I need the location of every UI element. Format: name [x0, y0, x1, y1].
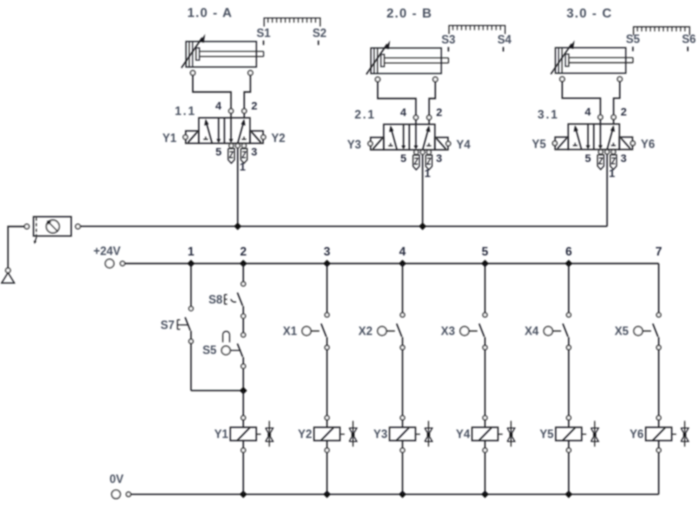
svg-text:Y1: Y1: [214, 429, 229, 441]
wire cylinder left port to valve port 4: [193, 75, 231, 109]
svg-text:S5: S5: [626, 34, 641, 46]
junction 0V rail column 4: [399, 491, 407, 499]
contact X4 (NO): [525, 313, 571, 350]
switch S7 (detent, NO): [160, 307, 193, 344]
+24V supply terminal: [93, 246, 124, 268]
solenoid Y1 (left pilot): [183, 131, 199, 143]
wire joining column 1 to column 2: [191, 390, 243, 392]
silencer at port 5: [413, 155, 419, 170]
junction under valve 1.1: [234, 223, 242, 231]
svg-text:X3: X3: [441, 326, 455, 338]
svg-text:1: 1: [609, 168, 615, 180]
svg-text:3: 3: [324, 245, 331, 259]
suppressor of Y1: [256, 421, 273, 447]
svg-text:5: 5: [482, 245, 489, 259]
svg-text:4: 4: [399, 245, 406, 259]
valve port 2 connection: [427, 115, 431, 124]
svg-text:0V: 0V: [109, 474, 123, 486]
svg-text:X1: X1: [283, 326, 298, 338]
wire S8 to S5: [242, 318, 244, 333]
ruler scale above cylinder 2: [449, 26, 506, 35]
contact X3 (NO): [441, 313, 487, 350]
wire X1 down to relay: [326, 350, 328, 416]
cylinder 2.0 - B: [366, 41, 448, 82]
wire X4 down to relay: [568, 350, 570, 416]
contact X1 (NO): [283, 313, 329, 350]
junction +24V rail column 6: [565, 260, 573, 268]
suppressor of Y2: [340, 421, 357, 447]
0V supply terminal: [109, 474, 130, 499]
wire cylinder right port to valve port 2: [429, 82, 435, 116]
switch S5 (proximity, NO): [202, 331, 245, 368]
junction under valve 2.1: [419, 223, 427, 231]
ruler scale above cylinder 3: [633, 27, 690, 36]
solenoid Y4 (right pilot): [435, 137, 451, 149]
svg-text:Y6: Y6: [641, 139, 655, 151]
svg-text:Y5: Y5: [532, 139, 547, 151]
cylinder 1.0 - A: [181, 34, 263, 75]
wire valve 3.1 port 1 down to supply line: [606, 154, 608, 226]
svg-text:Y4: Y4: [456, 429, 471, 441]
wire Y3 to 0V rail: [402, 452, 404, 494]
svg-text:Y3: Y3: [373, 429, 387, 441]
wire +24V to X1: [326, 264, 328, 313]
0V rail: [131, 493, 659, 495]
sensor mark S3: [441, 35, 455, 52]
svg-text:2.0 - B: 2.0 - B: [386, 6, 432, 21]
svg-text:5: 5: [400, 153, 406, 165]
silencer at port 5: [598, 155, 604, 170]
wire Y2 to 0V rail: [326, 452, 328, 494]
junction 0V rail column 2: [240, 491, 248, 499]
sensor mark S4: [497, 35, 512, 52]
junction column 2 join: [240, 387, 248, 395]
junction +24V rail column 1: [187, 260, 195, 268]
solenoid Y3 (left pilot): [368, 137, 384, 149]
svg-text:S3: S3: [441, 35, 455, 47]
junction +24V rail column 5: [481, 260, 489, 268]
wire Y4 to 0V rail: [484, 452, 486, 494]
wire +24V to X4: [568, 264, 570, 313]
valve bottom ports 5 1 3: [599, 150, 616, 154]
wire cylinder left port to valve port 4: [378, 82, 416, 116]
svg-text:2: 2: [436, 107, 442, 119]
silencer at port 5: [228, 149, 234, 164]
svg-text:4: 4: [400, 107, 407, 119]
valve port 2 connection: [611, 115, 615, 124]
relay coil Y1: [214, 416, 256, 453]
valve port 4 connection: [229, 109, 233, 118]
wire S7 down to join: [190, 343, 192, 390]
sensor mark S2: [312, 28, 326, 45]
svg-text:5: 5: [215, 147, 221, 159]
suppressor of Y4: [498, 421, 515, 447]
compressed air source: [2, 273, 15, 283]
relay coil Y3: [373, 416, 415, 453]
switch S8 (detent, NO): [208, 282, 245, 318]
relay coil Y4: [456, 416, 498, 453]
valve port 2 connection: [242, 109, 246, 118]
svg-text:Y5: Y5: [540, 429, 555, 441]
wire valve 2.1 port 1 down to supply line: [422, 154, 424, 226]
+24V rail: [125, 263, 659, 265]
svg-text:1: 1: [424, 168, 430, 180]
svg-text:1: 1: [240, 162, 246, 174]
solenoid Y2 (right pilot): [250, 131, 266, 143]
junction 0V rail column 6: [565, 491, 573, 499]
valve port 4 connection: [598, 115, 602, 124]
valve bottom ports 5 1 3: [414, 150, 431, 154]
valve 1.1 5/2-way body: [199, 118, 250, 144]
svg-text:6: 6: [565, 245, 572, 259]
svg-text:Y6: Y6: [630, 429, 644, 441]
wire X5 down to relay: [658, 350, 660, 416]
svg-text:Y1: Y1: [162, 133, 177, 145]
svg-text:X4: X4: [525, 326, 540, 338]
wire service unit to air source: [8, 227, 25, 269]
junction +24V rail column 4: [399, 260, 407, 268]
svg-text:+24V: +24V: [93, 246, 121, 258]
relay coil Y2: [298, 416, 340, 453]
wire cylinder left port to valve port 4: [562, 81, 600, 115]
solenoid Y5 (left pilot): [553, 137, 569, 149]
svg-text:Y4: Y4: [456, 140, 471, 152]
suppressor of Y3: [416, 421, 433, 447]
svg-text:3.1: 3.1: [538, 108, 559, 122]
svg-text:1.1: 1.1: [175, 104, 196, 118]
suppressor of Y6: [672, 421, 689, 447]
wire join to relay Y1: [242, 391, 244, 416]
svg-text:Y2: Y2: [298, 429, 312, 441]
svg-text:2: 2: [621, 107, 627, 119]
svg-text:2.1: 2.1: [354, 108, 375, 122]
svg-text:X5: X5: [615, 326, 630, 338]
svg-text:2: 2: [240, 245, 247, 259]
contact X5 (NO): [615, 313, 661, 350]
valve 2.1 5/2-way body: [384, 124, 435, 150]
valve 3.1 5/2-way body: [568, 124, 619, 150]
solenoid Y6 (right pilot): [619, 137, 635, 149]
wire valve 1.1 port 1 down to supply line: [237, 148, 239, 227]
svg-text:7: 7: [655, 245, 662, 259]
wire +24V to X2: [402, 264, 404, 313]
wire X2 down to relay: [402, 350, 404, 416]
svg-text:3: 3: [436, 153, 442, 165]
svg-text:3: 3: [251, 147, 257, 159]
silencer at port 3: [610, 155, 616, 170]
svg-text:3: 3: [621, 153, 627, 165]
wire +24V to X3: [484, 264, 486, 313]
svg-text:1: 1: [188, 245, 195, 259]
cylinder 3.0 - C: [551, 40, 633, 81]
svg-text:S2: S2: [312, 28, 326, 40]
air source connection: [6, 268, 11, 273]
svg-text:S6: S6: [682, 34, 696, 46]
junction 0V rail column 3: [323, 491, 331, 499]
svg-text:4: 4: [215, 100, 222, 112]
svg-text:S7: S7: [160, 320, 174, 332]
wire cylinder right port to valve port 2: [244, 75, 250, 109]
wire Y5 to 0V rail: [568, 452, 570, 494]
wire Y1 to 0V rail: [242, 452, 244, 494]
wire +24V to S7: [190, 264, 192, 307]
svg-text:Y2: Y2: [271, 133, 285, 145]
svg-text:S4: S4: [497, 35, 512, 47]
svg-text:1.0 - A: 1.0 - A: [187, 5, 233, 20]
wire +24V to X5: [658, 264, 660, 313]
sensor mark S1: [256, 28, 271, 45]
sensor mark S5: [626, 34, 641, 51]
ruler scale above cylinder 1: [264, 18, 321, 27]
svg-text:X2: X2: [358, 326, 372, 338]
relay coil Y6: [630, 416, 672, 453]
sensor mark S6: [682, 34, 696, 51]
wire X3 down to relay: [484, 350, 486, 416]
wire S5 down to join: [242, 368, 244, 390]
svg-text:S8: S8: [208, 295, 223, 307]
svg-text:2: 2: [251, 101, 257, 113]
silencer at port 3: [426, 155, 432, 170]
valve port 4 connection: [414, 115, 418, 124]
air service unit: [25, 217, 81, 244]
svg-text:S5: S5: [202, 345, 217, 357]
wire Y6 to 0V rail: [658, 452, 660, 494]
wire +24V to S8: [242, 264, 244, 282]
svg-text:S1: S1: [256, 28, 271, 40]
compressed air supply line: [80, 225, 607, 227]
svg-text:Y3: Y3: [347, 140, 361, 152]
junction +24V rail column 2: [240, 260, 248, 268]
junction +24V rail column 3: [323, 260, 331, 268]
silencer at port 3: [241, 149, 247, 164]
svg-text:4: 4: [585, 107, 592, 119]
contact X2 (NO): [358, 313, 404, 350]
relay coil Y5: [540, 416, 582, 453]
svg-text:5: 5: [585, 153, 591, 165]
wire cylinder right port to valve port 2: [614, 81, 620, 115]
junction 0V rail column 5: [481, 491, 489, 499]
svg-text:3.0 - C: 3.0 - C: [566, 6, 612, 21]
suppressor of Y5: [582, 421, 599, 447]
valve bottom ports 5 1 3: [229, 144, 246, 148]
